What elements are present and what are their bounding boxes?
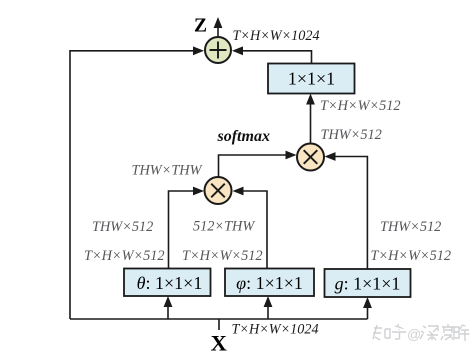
svg-text:X: X	[211, 331, 227, 352]
svg-text:g: 1×1×1: g: 1×1×1	[335, 274, 401, 294]
svg-text:T×H×W×512: T×H×W×512	[84, 248, 165, 264]
svg-text:T×H×W×512: T×H×W×512	[182, 248, 263, 264]
svg-text:T×H×W×1024: T×H×W×1024	[232, 322, 319, 338]
svg-text:T×H×W×512: T×H×W×512	[371, 248, 452, 264]
svg-text:softmax: softmax	[217, 128, 270, 145]
svg-text:φ: 1×1×1: φ: 1×1×1	[236, 273, 303, 293]
svg-text:THW×512: THW×512	[321, 127, 382, 143]
svg-text:THW×512: THW×512	[380, 219, 441, 235]
svg-text:THW×512: THW×512	[92, 219, 153, 235]
svg-text:T×H×W×1024: T×H×W×1024	[233, 28, 320, 44]
svg-text:@: @	[407, 326, 421, 342]
svg-text:512×THW: 512×THW	[193, 219, 255, 235]
svg-text:THW×THW: THW×THW	[132, 163, 203, 179]
svg-text:θ: 1×1×1: θ: 1×1×1	[137, 273, 203, 293]
svg-text:1×1×1: 1×1×1	[288, 69, 335, 89]
svg-text:T×H×W×512: T×H×W×512	[320, 98, 401, 114]
svg-text:Z: Z	[194, 16, 207, 37]
